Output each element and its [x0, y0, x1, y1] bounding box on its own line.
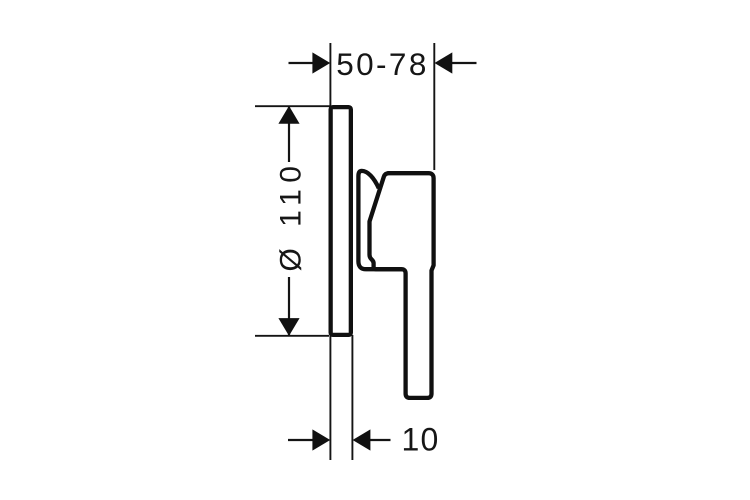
extension tick top for O110	[255, 105, 331, 107]
dimension line 50-78 right segment	[449, 62, 477, 64]
svg-text:Ø 110: Ø 110	[275, 160, 308, 272]
dimension line 10 right segment	[368, 439, 391, 441]
arrowhead O110 down	[278, 318, 299, 336]
arrowhead 10 right	[353, 429, 371, 450]
extension tick bottom for O110	[255, 335, 329, 337]
dimension line O110 upper segment	[288, 106, 290, 162]
svg-text:10: 10	[402, 422, 440, 458]
dimension line 50-78 left segment	[289, 62, 317, 64]
svg-text:50-78: 50-78	[336, 46, 429, 82]
dimension line 10 left segment	[288, 439, 316, 441]
dimension line O110 lower segment	[288, 277, 290, 336]
arrowhead O110 up	[278, 106, 299, 124]
escutcheon wall plate (side view)	[331, 107, 351, 335]
arrowhead 50-78 left	[312, 52, 330, 73]
extension line right (handle face)	[433, 43, 435, 170]
extension line plate rear for 10 dim	[351, 335, 353, 460]
cartridge sleeve cone	[358, 171, 404, 269]
arrowhead 50-78 right	[435, 52, 453, 73]
lever handle body and arm	[370, 173, 434, 398]
wall / finished-surface extension line	[329, 43, 331, 460]
arrowhead 10 left	[312, 429, 330, 450]
